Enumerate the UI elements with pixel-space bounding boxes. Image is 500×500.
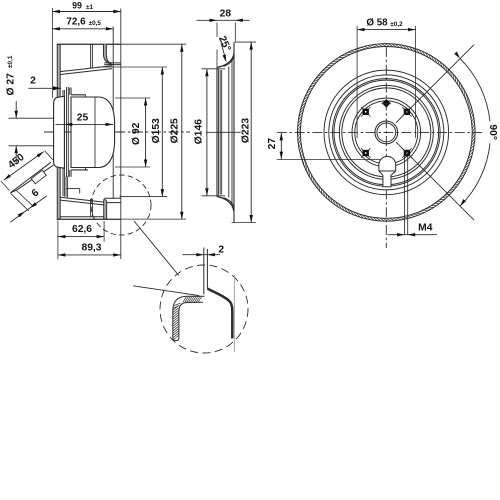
housing top edge xyxy=(57,43,186,45)
svg-text:62,6: 62,6 xyxy=(72,224,92,235)
dimension 27 (front) xyxy=(267,133,380,160)
cable extension lines xyxy=(11,191,34,211)
dimension 6 xyxy=(10,187,47,222)
motor step bottom xyxy=(71,168,88,170)
impeller profile right edge xyxy=(233,42,235,222)
motor step top xyxy=(71,95,85,97)
blade section (top) xyxy=(91,44,93,68)
impeller left edge xyxy=(216,67,218,196)
motor flange stack xyxy=(67,87,72,177)
svg-text:Ø223: Ø223 xyxy=(241,118,252,143)
dimension O27 lines xyxy=(9,101,54,163)
inlet cone wall bottom xyxy=(60,197,103,205)
blade tips hatch ring xyxy=(298,44,476,222)
dimension O27 text xyxy=(6,55,17,95)
label 2 (plate thickness) xyxy=(29,76,62,91)
svg-text:±0,5: ±0,5 xyxy=(89,20,102,27)
dimension O225 xyxy=(170,44,184,219)
mounting plate (section) xyxy=(57,44,60,219)
detail back plate bold xyxy=(208,275,235,352)
svg-text:25: 25 xyxy=(77,112,89,123)
dimension O153 xyxy=(98,67,168,197)
front view horizontal centerline xyxy=(277,131,482,133)
svg-text:Ø153: Ø153 xyxy=(151,118,162,143)
impeller circles xyxy=(298,44,476,222)
detail rolled lip band xyxy=(173,296,205,340)
blade section (bottom) xyxy=(91,199,93,217)
middle view centerline xyxy=(206,131,241,133)
dimension 28 xyxy=(197,8,250,67)
detail wall lines xyxy=(204,248,208,295)
svg-text:89,3: 89,3 xyxy=(81,243,101,254)
lip elbow (bottom, section) xyxy=(104,200,107,220)
housing bottom edge xyxy=(57,217,186,219)
top marker diamond xyxy=(382,99,392,108)
impeller inner lines xyxy=(219,58,232,206)
dimension O223 xyxy=(232,42,257,222)
svg-text:450: 450 xyxy=(6,152,27,171)
cable xyxy=(10,162,53,193)
label M4 xyxy=(388,156,437,237)
detail circle xyxy=(160,265,248,353)
dimension 450 xyxy=(1,151,54,191)
svg-text:Ø 92: Ø 92 xyxy=(131,122,142,145)
ring flange bottom edge xyxy=(104,198,121,202)
cable gland xyxy=(379,156,396,186)
svg-text:6: 6 xyxy=(30,187,42,199)
svg-text:±0,2: ±0,2 xyxy=(390,21,403,28)
dimension 62,6 xyxy=(58,221,104,260)
svg-text:Ø146: Ø146 xyxy=(193,119,204,144)
ring flange verticals xyxy=(113,9,121,260)
svg-text:Ø225: Ø225 xyxy=(170,118,181,143)
svg-text:Ø 27: Ø 27 xyxy=(6,73,17,96)
dimension 99 +-1 text xyxy=(72,0,93,11)
ring flange top edge xyxy=(104,63,121,65)
svg-text:M4: M4 xyxy=(418,222,433,233)
dimension O58 xyxy=(357,17,415,138)
impeller rolled lip bottom xyxy=(217,197,234,212)
svg-text:72,6: 72,6 xyxy=(66,17,86,28)
90 deg radial lines xyxy=(396,45,474,220)
detail leader line xyxy=(134,221,179,276)
impeller rolled lip top xyxy=(217,53,234,67)
90 deg arc xyxy=(454,52,490,207)
motor body seam xyxy=(94,97,96,168)
label 25 deg xyxy=(216,35,233,63)
svg-text:Ø 58: Ø 58 xyxy=(366,17,388,28)
dimension 25 xyxy=(56,112,114,126)
svg-text:2: 2 xyxy=(218,245,224,256)
dimension 72,6 +-0,5 text xyxy=(66,17,101,28)
support bracket lines xyxy=(63,90,80,197)
svg-text:2: 2 xyxy=(30,76,36,87)
dimension 99 line xyxy=(52,8,120,98)
svg-text:25°: 25° xyxy=(216,35,233,54)
dimension 89,3 xyxy=(58,243,121,257)
inlet cone wall top xyxy=(60,66,112,75)
detail section hatch xyxy=(173,297,202,340)
svg-text:±0,1: ±0,1 xyxy=(7,55,14,68)
svg-text:28: 28 xyxy=(220,8,232,19)
left view horizontal centerline xyxy=(44,131,190,133)
motor end cap xyxy=(54,96,65,168)
label 90 deg xyxy=(487,124,498,140)
dimension O92 xyxy=(115,98,150,167)
detail dimension 2 xyxy=(183,245,225,257)
dimension 72,6 line xyxy=(52,8,113,31)
svg-text:±1: ±1 xyxy=(86,4,94,11)
mounting holes (4x) xyxy=(361,107,412,158)
detail cone surface xyxy=(133,286,199,296)
detail marker circle xyxy=(91,175,151,235)
dimension O146 xyxy=(193,69,225,196)
shaft hole xyxy=(375,121,398,144)
motor body xyxy=(71,97,115,168)
svg-text:90°: 90° xyxy=(487,124,498,140)
svg-text:99: 99 xyxy=(72,0,82,10)
inlet lip curl (top) xyxy=(104,44,113,64)
svg-text:27: 27 xyxy=(267,138,278,150)
front view vertical centerline xyxy=(385,47,387,248)
